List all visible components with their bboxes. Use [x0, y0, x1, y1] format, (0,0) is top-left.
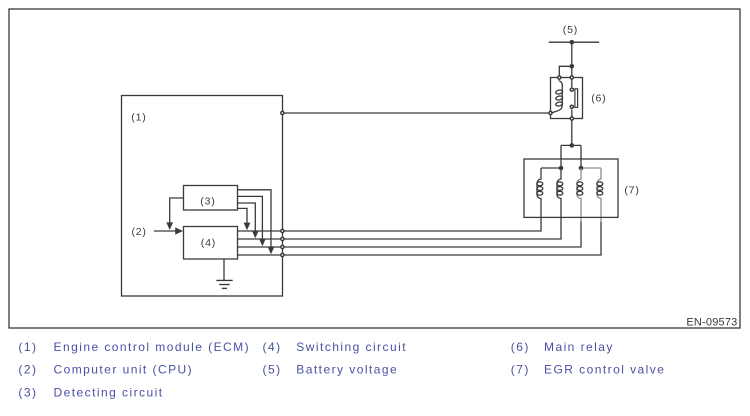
svg-text:EGR control valve: EGR control valve	[544, 363, 665, 377]
terminal: ECM solenoid drive 3	[281, 245, 284, 248]
wire: detecting circuit sense line c	[238, 203, 256, 232]
svg-text:(1): (1)	[18, 340, 37, 354]
wire: valve feed right drop	[580, 145, 582, 168]
wire: ECM output to main relay coil	[282, 112, 550, 114]
terminal: relay switch contact lower	[570, 105, 573, 108]
terminal: relay bottom output	[570, 117, 573, 120]
svg-text:(1): (1)	[131, 111, 146, 123]
relay switch lower lead	[571, 110, 573, 119]
svg-text:EN-09573: EN-09573	[686, 316, 737, 328]
terminal: relay top right	[570, 76, 573, 79]
wire: switching circuit ground lead	[223, 259, 225, 280]
wire: solenoid drive line 2	[238, 198, 562, 239]
terminal: ECM output to relay	[281, 111, 284, 114]
wire: detecting circuit sense line b	[238, 196, 263, 240]
arrowhead sense line a	[268, 247, 275, 255]
svg-text:(4): (4)	[263, 340, 282, 354]
wire: branch to relay coil terminal	[559, 66, 572, 77]
svg-text:Computer unit (CPU): Computer unit (CPU)	[54, 363, 194, 377]
terminal: relay top left	[558, 76, 561, 79]
terminal: ECM solenoid drive 4	[281, 253, 284, 256]
svg-text:Main relay: Main relay	[544, 340, 614, 354]
terminal: ECM solenoid drive 1	[281, 229, 284, 232]
svg-text:(7): (7)	[511, 363, 530, 377]
terminal: relay coil to ECM (left edge)	[549, 111, 552, 114]
wire: battery feed down to relay	[571, 42, 573, 77]
svg-text:(5): (5)	[263, 363, 282, 377]
svg-text:Detecting circuit: Detecting circuit	[54, 385, 164, 399]
terminal: ECM solenoid drive 2	[281, 237, 284, 240]
EGR control valve box (item 7)	[524, 159, 618, 217]
wire: solenoid drive line 1	[238, 198, 542, 231]
svg-text:(6): (6)	[511, 340, 530, 354]
wire: solenoid drive line 4	[238, 222, 602, 256]
junction dot at valve feed split	[570, 143, 575, 148]
detecting circuit box (item 3)	[184, 186, 238, 211]
relay switch movable side	[571, 78, 573, 88]
border frame of schematic	[9, 9, 740, 328]
svg-text:(3): (3)	[18, 385, 37, 399]
svg-text:(6): (6)	[591, 93, 606, 105]
svg-text:Battery voltage: Battery voltage	[296, 363, 398, 377]
wire: gray stubs solenoid 3 and 4 below valve box	[581, 198, 601, 222]
svg-text:(2): (2)	[132, 226, 147, 238]
svg-text:(5): (5)	[563, 24, 578, 36]
switching circuit box (item 4)	[184, 227, 238, 260]
wire: valve feed split horizontal	[561, 144, 581, 146]
arrowhead sense line b	[259, 239, 266, 247]
arrowhead on CPU input wire	[175, 227, 183, 234]
junction dot at relay feed split	[570, 64, 575, 69]
relay coil winding	[552, 78, 562, 113]
terminal: relay switch contact upper	[570, 88, 573, 91]
junction dot pair 2	[579, 166, 584, 171]
battery voltage bar (item 5)	[549, 41, 600, 43]
wire: CPU input (2) into switching circuit	[154, 230, 176, 232]
wire: solenoid drive line 3	[238, 222, 582, 248]
arrowhead sense line d	[244, 223, 251, 231]
svg-text:(2): (2)	[18, 363, 37, 377]
solenoid coil L1	[537, 168, 543, 199]
wire: detecting circuit sense line d	[238, 208, 248, 224]
main relay box (item 6)	[551, 78, 583, 119]
svg-text:Switching circuit: Switching circuit	[296, 340, 407, 354]
ground symbol	[216, 280, 232, 288]
arrowhead sense line c	[252, 231, 259, 239]
wire: detecting circuit sense line a	[238, 190, 272, 248]
wire: detecting circuit feedback to CPU input line	[170, 198, 184, 223]
solenoid coil L2	[557, 168, 563, 199]
wire: solenoid pair 1 top connector	[541, 167, 561, 169]
solenoid coil L4	[597, 168, 603, 199]
svg-text:Engine control module (ECM): Engine control module (ECM)	[54, 340, 251, 354]
junction dot pair 1	[559, 166, 564, 171]
wire: solenoid pair 2 top connector (gray)	[581, 167, 601, 169]
svg-text:(3): (3)	[200, 195, 215, 207]
solenoid coil L3	[577, 168, 583, 199]
arrowhead feedback wire	[166, 222, 173, 230]
relay switch contact bar	[575, 89, 578, 108]
svg-text:(4): (4)	[201, 237, 216, 249]
junction dot at battery bar	[570, 40, 575, 45]
wire: relay output down to valve feed split	[571, 120, 573, 145]
ECM box U1 (engine control module, item 1)	[122, 96, 283, 297]
svg-text:(7): (7)	[624, 185, 639, 197]
wire: valve feed left drop	[560, 145, 562, 168]
